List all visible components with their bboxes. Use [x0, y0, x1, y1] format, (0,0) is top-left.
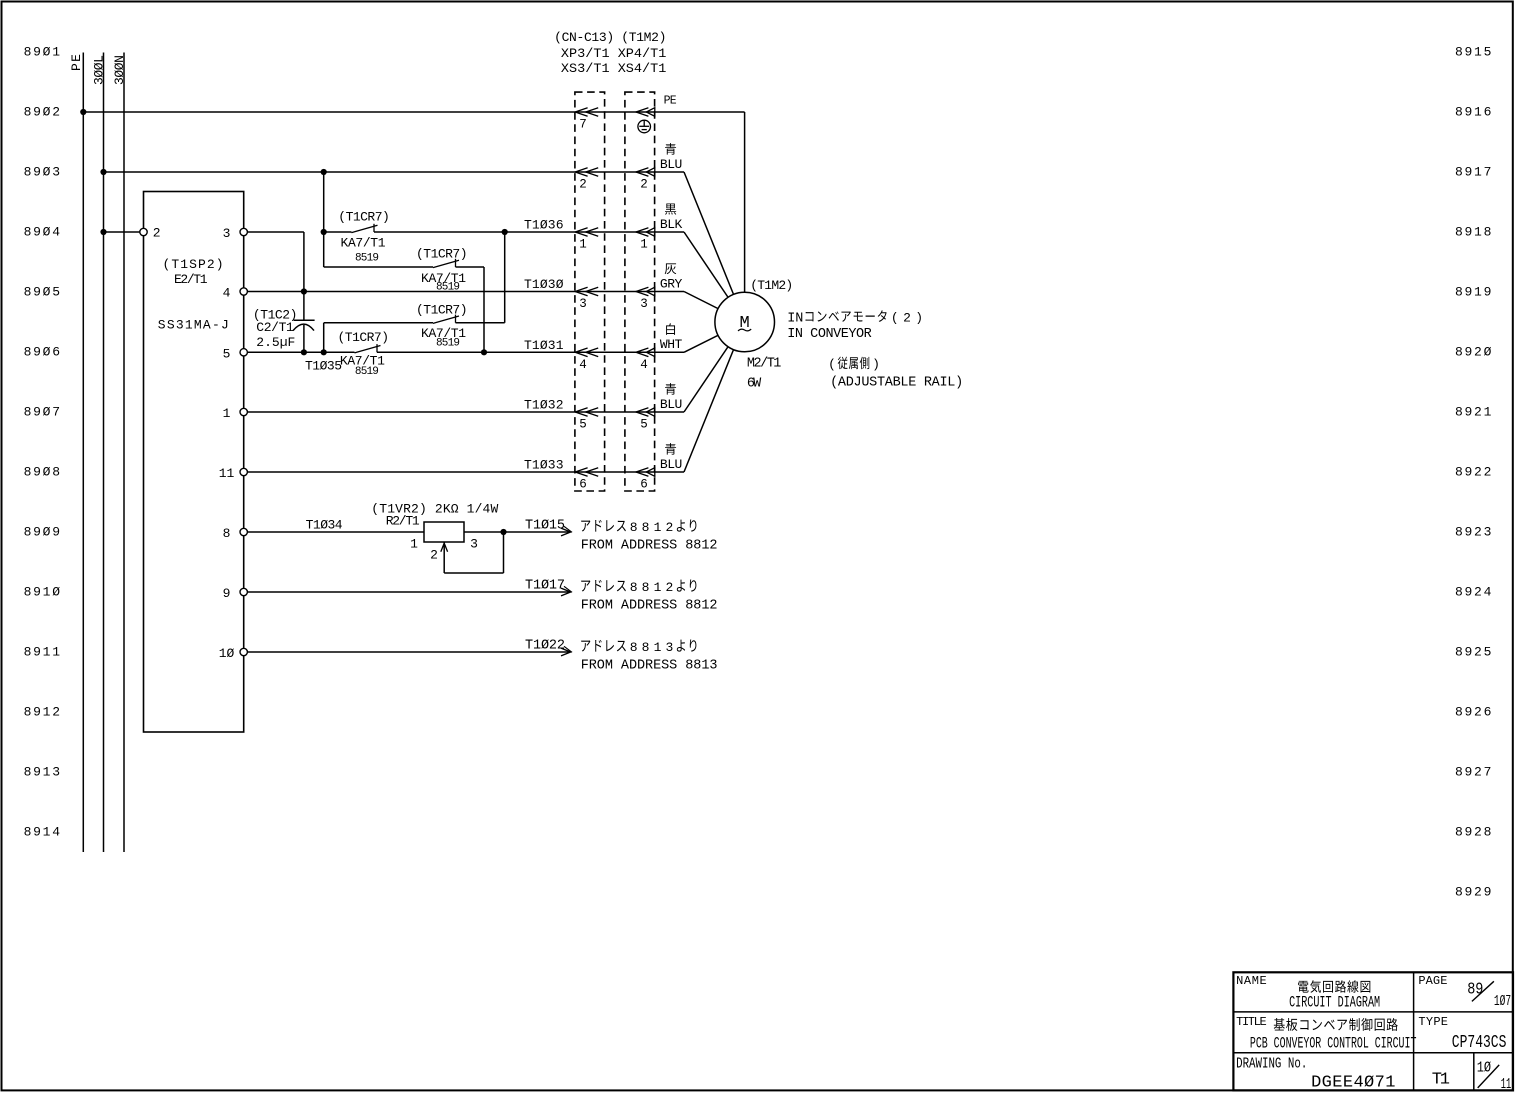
svg-text:8921: 8921 — [1455, 405, 1492, 420]
svg-text:8922: 8922 — [1455, 465, 1491, 480]
svg-text:KA7/T1: KA7/T1 — [341, 236, 386, 251]
svg-text:2: 2 — [665, 580, 673, 595]
svg-text:8: 8 — [642, 520, 650, 535]
svg-text:BLU: BLU — [660, 157, 682, 172]
svg-text:6: 6 — [579, 478, 587, 492]
svg-text:1Ø: 1Ø — [1477, 1061, 1492, 1077]
svg-text:PAGE: PAGE — [1418, 974, 1447, 988]
svg-text:89Ø6: 89Ø6 — [24, 345, 60, 360]
svg-text:1Ø: 1Ø — [219, 646, 235, 661]
svg-text:3ØØL: 3ØØL — [92, 55, 107, 85]
svg-text:6: 6 — [640, 478, 648, 492]
svg-text:1: 1 — [410, 537, 418, 552]
svg-text:BLK: BLK — [660, 217, 683, 232]
svg-text:1: 1 — [654, 520, 662, 535]
svg-text:2: 2 — [153, 226, 161, 241]
svg-text:NAME: NAME — [1236, 974, 1267, 988]
svg-text:2: 2 — [579, 178, 587, 192]
svg-text:8929: 8929 — [1455, 885, 1491, 900]
svg-text:1Ø7: 1Ø7 — [1494, 993, 1511, 1010]
svg-text:(T1CR7): (T1CR7) — [338, 209, 390, 224]
svg-text:3: 3 — [665, 640, 673, 655]
svg-text:C2/T1: C2/T1 — [256, 320, 294, 335]
svg-text:(T1M2): (T1M2) — [750, 278, 793, 293]
svg-text:5: 5 — [223, 346, 231, 361]
svg-text:T1Ø35: T1Ø35 — [305, 358, 342, 373]
svg-text:T1Ø3Ø: T1Ø3Ø — [524, 277, 564, 292]
svg-text:4: 4 — [223, 286, 231, 301]
svg-text:8: 8 — [642, 640, 650, 655]
svg-text:3: 3 — [223, 226, 231, 241]
svg-text:BLU: BLU — [660, 397, 682, 412]
svg-text:PE: PE — [664, 95, 677, 108]
svg-text:BLU: BLU — [660, 457, 682, 472]
svg-text:PCB CONVEYOR CONTROL CIRCUIT: PCB CONVEYOR CONTROL CIRCUIT — [1250, 1035, 1417, 1053]
svg-text:8519: 8519 — [355, 253, 379, 265]
svg-text:T1: T1 — [1432, 1070, 1450, 1089]
svg-text:8918: 8918 — [1455, 225, 1491, 240]
svg-text:(T1CR7): (T1CR7) — [416, 302, 468, 317]
svg-text:1: 1 — [654, 640, 662, 655]
svg-text:7: 7 — [579, 118, 587, 132]
svg-text:8916: 8916 — [1455, 105, 1491, 120]
svg-text:1: 1 — [223, 406, 231, 421]
svg-text:89Ø4: 89Ø4 — [24, 225, 61, 240]
svg-text:T1Ø33: T1Ø33 — [524, 458, 564, 473]
svg-text:8: 8 — [630, 520, 638, 535]
svg-text:3: 3 — [470, 537, 478, 552]
svg-text:): ) — [915, 310, 923, 325]
svg-text:(CN-C13) (T1M2): (CN-C13) (T1M2) — [554, 30, 666, 45]
svg-text:6W: 6W — [747, 377, 762, 392]
svg-text:T1Ø32: T1Ø32 — [524, 398, 564, 413]
svg-text:R2/T1: R2/T1 — [386, 514, 420, 529]
svg-text:1: 1 — [654, 580, 662, 595]
svg-text:4: 4 — [579, 358, 587, 372]
svg-text:8913: 8913 — [24, 765, 60, 780]
svg-text:8912: 8912 — [24, 705, 60, 720]
svg-text:TYPE: TYPE — [1418, 1015, 1448, 1029]
svg-text:DGEE4Ø71: DGEE4Ø71 — [1311, 1073, 1395, 1092]
svg-text:89Ø8: 89Ø8 — [24, 465, 60, 480]
svg-text:8: 8 — [642, 580, 650, 595]
svg-text:89Ø5: 89Ø5 — [24, 285, 60, 300]
svg-text:(: ( — [828, 357, 836, 372]
svg-text:8911: 8911 — [24, 645, 61, 660]
svg-text:2: 2 — [665, 520, 673, 535]
svg-text:FROM ADDRESS 8813: FROM ADDRESS 8813 — [581, 658, 718, 673]
svg-text:1: 1 — [579, 238, 587, 252]
svg-text:T1Ø36: T1Ø36 — [524, 218, 564, 233]
svg-text:8519: 8519 — [355, 366, 379, 378]
svg-text:891Ø: 891Ø — [24, 585, 61, 600]
svg-text:DRAWING No.: DRAWING No. — [1236, 1055, 1307, 1072]
svg-text:4: 4 — [640, 358, 648, 372]
svg-text:2.5µF: 2.5µF — [256, 335, 295, 350]
svg-text:SS31MA-J: SS31MA-J — [158, 318, 229, 333]
svg-text:T1Ø22: T1Ø22 — [525, 639, 565, 654]
svg-text:TITLE: TITLE — [1236, 1015, 1267, 1029]
svg-text:8519: 8519 — [436, 337, 460, 349]
svg-text:8: 8 — [223, 526, 231, 541]
svg-text:2: 2 — [903, 310, 911, 325]
svg-text:11: 11 — [1501, 1077, 1512, 1093]
svg-text:T1Ø17: T1Ø17 — [525, 579, 565, 594]
svg-text:8: 8 — [630, 640, 638, 655]
svg-text:8925: 8925 — [1455, 645, 1491, 660]
svg-text:T1Ø31: T1Ø31 — [524, 338, 564, 353]
svg-text:(T1CR7): (T1CR7) — [338, 330, 390, 345]
svg-text:3: 3 — [640, 297, 648, 311]
svg-text:8919: 8919 — [1455, 285, 1491, 300]
svg-text:8928: 8928 — [1455, 825, 1491, 840]
svg-text:89Ø9: 89Ø9 — [24, 525, 60, 540]
svg-text:XS3/T1 XS4/T1: XS3/T1 XS4/T1 — [561, 61, 667, 76]
svg-text:8926: 8926 — [1455, 705, 1491, 720]
svg-text:E2/T1: E2/T1 — [174, 272, 208, 287]
svg-text:892Ø: 892Ø — [1455, 345, 1492, 360]
svg-text:CIRCUIT DIAGRAM: CIRCUIT DIAGRAM — [1289, 994, 1380, 1012]
svg-text:2: 2 — [640, 178, 648, 192]
svg-text:89Ø7: 89Ø7 — [24, 405, 60, 420]
svg-text:T1Ø34: T1Ø34 — [306, 518, 343, 533]
svg-text:8914: 8914 — [24, 825, 61, 840]
svg-text:8: 8 — [630, 580, 638, 595]
svg-text:M2/T1: M2/T1 — [747, 357, 782, 372]
svg-text:XP3/T1 XP4/T1: XP3/T1 XP4/T1 — [561, 46, 667, 61]
svg-text:5: 5 — [640, 418, 648, 432]
svg-text:2: 2 — [430, 547, 438, 562]
svg-text:PE: PE — [69, 54, 84, 71]
svg-text:T1Ø15: T1Ø15 — [525, 519, 565, 534]
svg-text:8917: 8917 — [1455, 165, 1491, 180]
svg-text:CP743CS: CP743CS — [1452, 1033, 1507, 1053]
svg-text:89: 89 — [1467, 980, 1483, 999]
svg-text:89Ø2: 89Ø2 — [24, 105, 60, 120]
svg-text:8923: 8923 — [1455, 525, 1491, 540]
svg-text:IN: IN — [787, 311, 803, 326]
svg-text:WHT: WHT — [660, 337, 683, 352]
svg-text:8915: 8915 — [1455, 45, 1491, 60]
svg-text:9: 9 — [223, 586, 231, 601]
svg-text:89Ø1: 89Ø1 — [24, 45, 61, 60]
svg-text:(T1CR7): (T1CR7) — [416, 246, 468, 261]
svg-text:IN CONVEYOR: IN CONVEYOR — [787, 327, 871, 342]
svg-text:8927: 8927 — [1455, 765, 1491, 780]
svg-text:(ADJUSTABLE RAIL): (ADJUSTABLE RAIL) — [830, 376, 963, 391]
svg-text:8924: 8924 — [1455, 585, 1492, 600]
svg-text:(T1SP2): (T1SP2) — [163, 257, 224, 272]
svg-text:): ) — [872, 357, 880, 372]
svg-text:(: ( — [891, 310, 899, 325]
svg-text:5: 5 — [579, 418, 587, 432]
svg-text:GRY: GRY — [660, 276, 683, 291]
svg-text:11: 11 — [219, 466, 235, 481]
svg-text:89Ø3: 89Ø3 — [24, 165, 60, 180]
svg-text:FROM ADDRESS 8812: FROM ADDRESS 8812 — [581, 598, 718, 613]
svg-text:3ØØN: 3ØØN — [112, 55, 127, 85]
svg-text:3: 3 — [579, 297, 587, 311]
svg-text:1: 1 — [640, 238, 648, 252]
svg-text:FROM ADDRESS 8812: FROM ADDRESS 8812 — [581, 538, 718, 553]
svg-text:8519: 8519 — [436, 281, 460, 293]
